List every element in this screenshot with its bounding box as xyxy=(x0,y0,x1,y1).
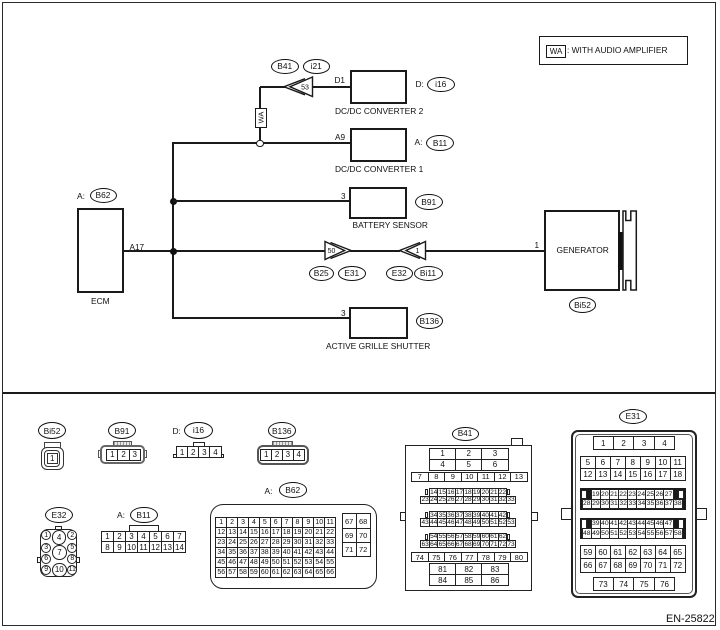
connector Bi52 pin 1 xyxy=(47,453,58,464)
connector ref E31 (pinout) xyxy=(619,409,647,424)
label BATTERY SENSOR xyxy=(353,221,428,231)
connector ref Bi11 xyxy=(414,266,443,281)
connector E31 shell xyxy=(561,508,572,520)
connector ref B91 xyxy=(415,194,443,210)
label A9 xyxy=(335,133,345,142)
connector ref A: B11 xyxy=(415,138,423,148)
wire branch A9 to DC/DC converter 1 xyxy=(173,142,350,144)
connector B11 pins 8-14 xyxy=(101,541,186,553)
label 3 (active grille shutter pin) xyxy=(341,309,346,318)
connector B62 pins 1-66 xyxy=(215,517,336,528)
wire: WA tap to inline connector 53 xyxy=(260,86,286,88)
connector B91 body xyxy=(113,441,133,447)
connector i16 body xyxy=(193,442,205,449)
flag WA (with audio amplifier) xyxy=(255,108,267,128)
DC/DC converter 1 box xyxy=(350,128,407,162)
connector B11 pins 1-7 xyxy=(101,531,186,543)
connector ref B25 xyxy=(309,266,334,281)
connector ref A: B62 (ECM) xyxy=(77,192,85,202)
inline connector 53 (B41 to i21) xyxy=(280,73,318,100)
section divider xyxy=(3,392,715,394)
label GENERATOR xyxy=(557,246,609,256)
svg-text:1: 1 xyxy=(416,248,420,255)
connector Bi52 body xyxy=(44,442,61,450)
connector ref i21 (inline) xyxy=(303,59,331,74)
connector ref E31 (inline) xyxy=(338,266,367,281)
connector ref Bi52 (generator) xyxy=(569,297,596,313)
connector B136 pins 1-4 xyxy=(260,449,304,461)
generator built-in connector symbol xyxy=(616,206,640,294)
GENERATOR box xyxy=(544,210,620,291)
junction dot: battery sensor branch xyxy=(170,198,177,205)
wire to generator pin 1 xyxy=(425,250,544,252)
connector ref B136 xyxy=(416,313,444,329)
connector B62 pins 67-72 xyxy=(342,513,371,528)
vertical trunk wire from ECM node xyxy=(172,142,174,319)
legend: WA = WITH AUDIO AMPLIFIER xyxy=(539,36,688,65)
inline connector 1 (E32 to Bi11) xyxy=(392,239,427,262)
ECM box xyxy=(77,208,124,294)
label 3 (battery sensor pin) xyxy=(341,192,346,201)
connector ref E32 (pinout) xyxy=(45,507,73,523)
svg-text:53: 53 xyxy=(301,85,309,92)
wire: battery sensor branch (pin 3) xyxy=(173,200,349,202)
svg-text:50: 50 xyxy=(328,248,336,255)
connector B91 pins 1-3 xyxy=(106,449,141,461)
label DC/DC CONVERTER 1 xyxy=(335,165,423,175)
connector ref A: B11 (pinout) xyxy=(117,511,125,521)
connector B136 body xyxy=(272,441,293,447)
connector E31 pin grid xyxy=(593,436,676,450)
label EN-25822 xyxy=(666,613,715,625)
label ECM xyxy=(91,297,110,307)
connector E32 pins 1-11 xyxy=(41,530,51,540)
connector ref D: i16 xyxy=(416,80,424,90)
connector ref B91 (pinout) xyxy=(108,422,136,439)
connector ref E32 (inline) xyxy=(386,266,414,281)
DC/DC converter 2 box xyxy=(350,70,407,104)
connector B41 pin grid xyxy=(429,448,509,460)
connector E32 body xyxy=(55,526,62,532)
wire A17: ECM to inline connector 50 xyxy=(123,250,326,252)
wire D1 to DC/DC converter 2 xyxy=(312,86,350,88)
connector ref A: B62 (pinout) xyxy=(265,487,273,497)
connector i16 pins 1-4 xyxy=(176,446,222,458)
junction: open circle at A9/WA tap xyxy=(256,140,264,148)
label ACTIVE GRILLE SHUTTER xyxy=(326,342,430,352)
wire: active grille shutter branch (pin 3) xyxy=(173,317,349,319)
connector B62 shell xyxy=(210,504,377,589)
label A17 xyxy=(130,243,145,252)
connector ref B41 (inline) xyxy=(271,59,299,74)
connector ref B136 (pinout) xyxy=(268,422,297,439)
connector ref D: i16 (pinout) xyxy=(173,427,181,437)
active grille shutter box xyxy=(349,307,408,339)
battery sensor box xyxy=(349,187,407,219)
wire: WA tap vertical xyxy=(259,87,261,140)
inline connector 50 (B25 to E31) xyxy=(320,239,357,262)
wire between inline connectors 50 and 1 xyxy=(350,250,400,252)
connector B11 body xyxy=(129,525,160,533)
connector B41 shell xyxy=(511,438,523,447)
label 1 (generator pin) xyxy=(535,241,540,250)
label D1 xyxy=(335,76,345,85)
connector ref B41 (pinout) xyxy=(452,427,479,441)
connector ref Bi52 (pinout) xyxy=(38,422,66,439)
label DC/DC CONVERTER 2 xyxy=(335,107,423,117)
junction dot: trunk / main wire xyxy=(170,248,177,255)
